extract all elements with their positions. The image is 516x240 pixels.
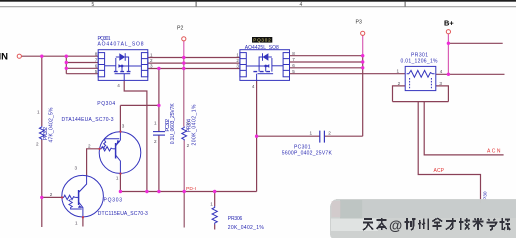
svg-text:5: 5 xyxy=(92,2,95,8)
junction PC302 row3 xyxy=(157,67,160,70)
junction PD-I at gate xyxy=(145,190,148,193)
wire pin5 row xyxy=(66,73,98,75)
svg-text:1: 1 xyxy=(236,53,239,58)
wire P3 testpoint stub xyxy=(362,36,364,56)
svg-text:4: 4 xyxy=(300,2,303,8)
wire ACP drop and run xyxy=(418,102,480,203)
wire PC302 branch from row3 xyxy=(158,69,160,132)
wire PQ304 base run xyxy=(87,149,100,176)
wire source row2 PQ301-PQ302 xyxy=(148,62,240,64)
terminal IN circle xyxy=(17,54,21,58)
capacitor PC301 plates xyxy=(320,131,325,143)
svg-text:3: 3 xyxy=(74,166,77,171)
junction IN-PR302 xyxy=(40,55,43,58)
wire PQ303 emitter stub xyxy=(82,217,84,226)
resistor PR306 zigzag xyxy=(212,206,217,225)
svg-text:8: 8 xyxy=(95,51,98,56)
terminal P2 circle xyxy=(182,37,186,41)
svg-text:2: 2 xyxy=(88,143,91,148)
transistor PQ303 circle xyxy=(62,175,104,217)
wire B+ vertical xyxy=(447,34,449,74)
wire source row1 PQ301-PQ302 xyxy=(148,57,240,59)
svg-text:2: 2 xyxy=(50,192,53,197)
svg-text:AO4425L_SO8: AO4425L_SO8 xyxy=(245,45,279,51)
wire PQ301 gate jog xyxy=(124,81,147,192)
wire PQ304 emitter drop xyxy=(119,174,121,192)
svg-text:2: 2 xyxy=(187,143,190,148)
svg-text:4: 4 xyxy=(252,84,255,89)
sheet border inner line xyxy=(0,5,516,8)
junction P3 row6 xyxy=(361,66,364,69)
svg-text:ACP: ACP xyxy=(434,168,445,174)
svg-text:20K_0402_1%: 20K_0402_1% xyxy=(228,225,265,231)
svg-text:0.01_1206_1%: 0.01_1206_1% xyxy=(401,59,439,65)
border tick x196 xyxy=(196,2,197,7)
svg-text:3: 3 xyxy=(236,64,239,69)
svg-text:0.1U_0603_25V7K: 0.1U_0603_25V7K xyxy=(170,103,176,145)
wire P2 net down to PR304 xyxy=(183,58,185,127)
wire PR301 pin2 jog xyxy=(393,86,406,102)
transistor PQ303 emitter arrow xyxy=(78,205,83,208)
svg-text:PD-I: PD-I xyxy=(186,186,196,192)
transistor PQ303 pin dots xyxy=(61,197,84,219)
svg-text:@: @ xyxy=(389,218,402,233)
wire PR304 bottom to bottom edge xyxy=(183,141,185,192)
transistor PQ304 emitter arrow xyxy=(116,140,120,146)
svg-text:3: 3 xyxy=(150,64,153,69)
wire gate cross link row xyxy=(120,104,158,106)
border tick x405 xyxy=(405,2,406,7)
svg-text:200K_0402_1%: 200K_0402_1% xyxy=(192,104,198,146)
wire PR301 pin4 to right xyxy=(436,73,505,75)
svg-text:7: 7 xyxy=(95,58,98,63)
svg-text:2: 2 xyxy=(398,81,401,86)
junction PC301 gate xyxy=(255,135,258,138)
wire PQ302 drain row8 xyxy=(290,55,363,57)
junction P3 row7 xyxy=(361,60,364,63)
pins PQ303 xyxy=(50,166,78,226)
svg-text:DTA144EUA_SC70-3: DTA144EUA_SC70-3 xyxy=(62,117,114,123)
svg-text:B+: B+ xyxy=(444,18,454,27)
svg-text:2: 2 xyxy=(150,58,153,63)
svg-text:1: 1 xyxy=(150,53,153,58)
wire PQ304 collector drop xyxy=(119,105,121,131)
wire P2 net below PD-I xyxy=(183,192,185,228)
svg-text:5: 5 xyxy=(292,69,295,74)
svg-text:PQ303: PQ303 xyxy=(104,198,123,204)
resistor PR301 body xyxy=(405,66,436,90)
svg-text:1: 1 xyxy=(187,120,190,125)
watermark panel xyxy=(330,199,516,240)
wire vertical bus left of PQ301 xyxy=(65,56,67,73)
svg-text:6: 6 xyxy=(95,63,98,68)
wire pin7 row xyxy=(66,62,98,64)
svg-text:2: 2 xyxy=(36,141,39,146)
wire IN row pin8 xyxy=(22,55,99,57)
wire pin6 row xyxy=(66,67,98,69)
junction IN bus top xyxy=(65,55,68,58)
svg-text:P2: P2 xyxy=(177,26,183,32)
wire B+ rail right xyxy=(448,42,502,44)
wire ACN drop and run xyxy=(424,102,503,155)
pins PQ301 left xyxy=(95,51,98,74)
wire PR301 pin3 jog xyxy=(436,86,449,102)
wire PD-I horizontal xyxy=(120,191,256,193)
wire source row3 PQ301-PQ302 xyxy=(148,68,240,70)
svg-text:1: 1 xyxy=(37,110,40,115)
svg-text:1: 1 xyxy=(154,120,157,125)
wire PR302 branch vertical upper xyxy=(41,56,43,126)
svg-text:PQ304: PQ304 xyxy=(97,101,115,107)
svg-text:1: 1 xyxy=(396,68,399,73)
wire PR306 bottom stub xyxy=(214,225,216,230)
mosfet PQ301 diode and dot xyxy=(118,53,125,67)
svg-text:2: 2 xyxy=(154,139,157,144)
terminal P3 circle xyxy=(361,31,365,35)
junction gate link xyxy=(157,104,160,107)
capacitor PC302 plates xyxy=(153,132,165,136)
wire PQ302 drain row6 xyxy=(290,67,363,69)
wire P2 testpoint vertical xyxy=(183,41,185,58)
wire P3 net vertical xyxy=(362,56,364,137)
svg-text:PQ302: PQ302 xyxy=(253,38,271,43)
junction bus row6 xyxy=(65,67,68,70)
label PQ302 ref highlighted xyxy=(252,37,272,43)
junction bus row7 xyxy=(65,61,68,64)
mosfet PQ302 body (mirrored) xyxy=(240,50,290,81)
wire PQ303 base stub xyxy=(42,196,62,198)
junction PD-I at PR306 xyxy=(213,190,216,193)
pins PC301 xyxy=(309,131,331,136)
svg-text:8: 8 xyxy=(292,51,295,56)
wire kelvin bottom link xyxy=(393,101,449,103)
junction PD-I at PC302 xyxy=(157,190,160,193)
svg-text:2: 2 xyxy=(236,58,239,63)
pins PR302 xyxy=(36,110,40,147)
svg-text:3: 3 xyxy=(122,123,125,128)
svg-text:1: 1 xyxy=(116,176,119,181)
sheet border top thick line xyxy=(0,0,516,2)
pins PQ304 xyxy=(88,123,125,180)
watermark text 头条@杭州华力技术学校 xyxy=(363,218,510,233)
wire PC301 right link xyxy=(325,135,363,137)
svg-text:6: 6 xyxy=(292,63,295,68)
terminal B+ circle xyxy=(446,30,450,34)
junction B+ pin4 xyxy=(447,73,450,76)
svg-text:PR306: PR306 xyxy=(228,216,243,222)
svg-text:AO4407AL_SO8: AO4407AL_SO8 xyxy=(98,42,144,48)
svg-text:IN: IN xyxy=(0,52,8,63)
transistor PQ304 pin dots xyxy=(99,131,122,175)
svg-text:1: 1 xyxy=(75,221,78,226)
junction PD-I at P2 line xyxy=(183,190,186,193)
pins PC302 xyxy=(154,120,157,144)
svg-text:5: 5 xyxy=(95,69,98,74)
svg-text:5600P_0402_25V7K: 5600P_0402_25V7K xyxy=(282,151,333,157)
svg-text:P30: P30 xyxy=(483,191,489,200)
pins PQ302 right xyxy=(292,51,295,74)
junction P3 row8 xyxy=(361,54,364,57)
junction PQ303 base xyxy=(40,196,43,199)
junction P2 row3 xyxy=(182,67,185,70)
svg-text:ACN: ACN xyxy=(487,148,501,154)
svg-text:1: 1 xyxy=(309,131,312,136)
pins PQ301 right xyxy=(150,53,153,69)
resistor PR304 zigzag xyxy=(182,127,187,141)
svg-text:1: 1 xyxy=(210,202,213,207)
pins PR304 xyxy=(187,120,190,148)
junction B+ rail xyxy=(447,42,450,45)
mosfet PQ301 body xyxy=(98,50,148,81)
wire PR306 top stub xyxy=(214,192,216,207)
wire PQ302 gate vertical xyxy=(256,81,258,192)
junction P2 row2 xyxy=(182,61,185,64)
svg-text:DTC115EUA_SC70-3: DTC115EUA_SC70-3 xyxy=(98,211,148,217)
wire PQ302 pin5 to PR301 xyxy=(290,73,406,75)
transistor PQ304 internals xyxy=(100,132,121,174)
pins PQ302 left xyxy=(236,53,239,69)
svg-text:7: 7 xyxy=(292,57,295,62)
wire PR302 branch vertical lower xyxy=(41,139,43,227)
svg-text:P3: P3 xyxy=(356,20,362,26)
resistor PR302 zigzag xyxy=(39,126,44,140)
transistor PQ304 circle xyxy=(99,132,141,174)
mosfet PQ302 diode and dot xyxy=(263,53,270,67)
junction P2 row1 xyxy=(182,56,185,59)
pins PR301 xyxy=(396,68,442,85)
svg-text:2: 2 xyxy=(328,131,331,136)
wire PC301 left link xyxy=(257,135,320,137)
svg-text:PC301: PC301 xyxy=(294,144,311,150)
svg-text:3: 3 xyxy=(439,81,442,86)
transistor PQ303 internals xyxy=(62,176,87,217)
wire PC302 bottom to PD-I row xyxy=(158,135,160,191)
junction PD-I at PQ304 xyxy=(119,190,122,193)
wire PQ302 drain row7 xyxy=(290,61,363,63)
svg-text:47K_0402_5%: 47K_0402_5% xyxy=(48,107,54,143)
svg-text:4: 4 xyxy=(440,69,443,74)
svg-text:4: 4 xyxy=(117,83,120,88)
